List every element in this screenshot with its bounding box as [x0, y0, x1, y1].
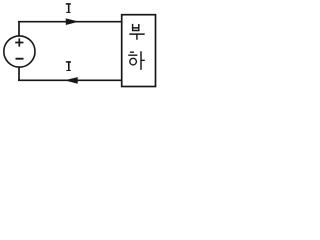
- label I bottom: [66, 61, 71, 71]
- label I top: [66, 3, 71, 13]
- current arrow I top (points right): [66, 19, 77, 24]
- load box outline: [122, 15, 156, 87]
- wire source top lead: [18, 21, 20, 36]
- wire source bottom lead: [18, 67, 20, 81]
- load label hangul HA (하): [128, 51, 145, 70]
- V1 minus terminal mark: [16, 58, 24, 60]
- wire bottom horizontal: [18, 79, 122, 81]
- V1 plus terminal mark: [15, 38, 23, 46]
- voltage source V1 circle: [4, 36, 35, 67]
- current arrow I bottom (points left): [66, 78, 77, 83]
- load label hangul BU (부): [129, 24, 144, 40]
- wire top horizontal: [18, 21, 122, 23]
